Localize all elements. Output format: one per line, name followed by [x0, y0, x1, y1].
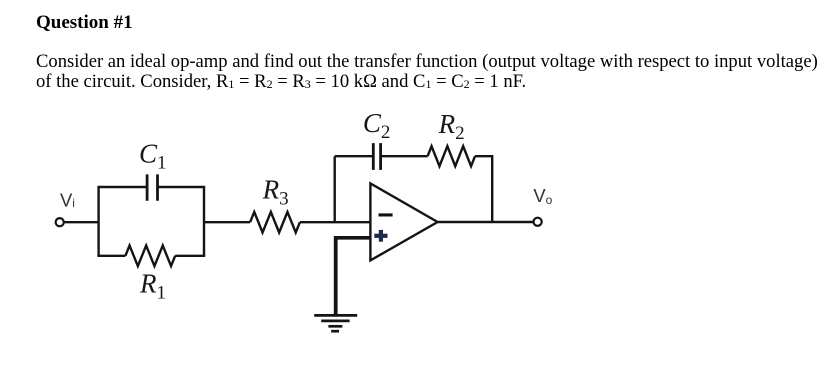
wire parallel block frame right — [203, 187, 205, 256]
node Vi input terminal — [56, 218, 64, 226]
op-amp U1 triangle — [370, 183, 437, 260]
wire feedback top left of C2 — [335, 155, 374, 157]
wire ground vertical — [334, 236, 338, 315]
resistor R1 zigzag — [125, 246, 175, 267]
wire R2 to right corner — [475, 155, 492, 157]
svg-text:R1: R1 — [139, 269, 166, 304]
resistor R3 zigzag — [250, 212, 300, 233]
node Vo output terminal — [534, 218, 542, 226]
svg-text:R2: R2 — [438, 109, 465, 144]
svg-text:Vo: Vo — [533, 185, 552, 207]
paragraph — [36, 52, 818, 93]
wire op-amp output to Vo — [438, 221, 534, 223]
op-amp plus sign — [374, 230, 387, 242]
svg-text:Vi: Vi — [60, 189, 75, 210]
capacitor C2 plates — [373, 143, 380, 170]
capacitor C1 plates — [147, 174, 157, 200]
op-amp minus sign — [379, 213, 393, 216]
wire parallel block to R3 — [204, 221, 250, 223]
wire parallel block frame left — [97, 187, 99, 256]
svg-text:C1: C1 — [139, 139, 167, 174]
wire non-inverting input — [334, 236, 370, 240]
wire C2 to R2 — [381, 155, 428, 157]
wire bottom branch right of R1 — [175, 255, 205, 257]
wire feedback right vertical — [491, 155, 493, 222]
svg-text:C2: C2 — [363, 108, 391, 143]
wire input to parallel block — [64, 221, 99, 223]
wire bottom branch left of R1 — [97, 255, 125, 257]
title — [36, 13, 133, 32]
wire top branch left of C1 — [97, 186, 147, 188]
wire R3 to op-amp inverting input — [300, 221, 371, 223]
wire top branch right of C1 — [158, 186, 206, 188]
resistor R2 zigzag — [428, 146, 475, 166]
svg-text:R3: R3 — [262, 174, 289, 209]
wire feedback left vertical — [334, 156, 336, 222]
ground symbol — [314, 315, 357, 331]
